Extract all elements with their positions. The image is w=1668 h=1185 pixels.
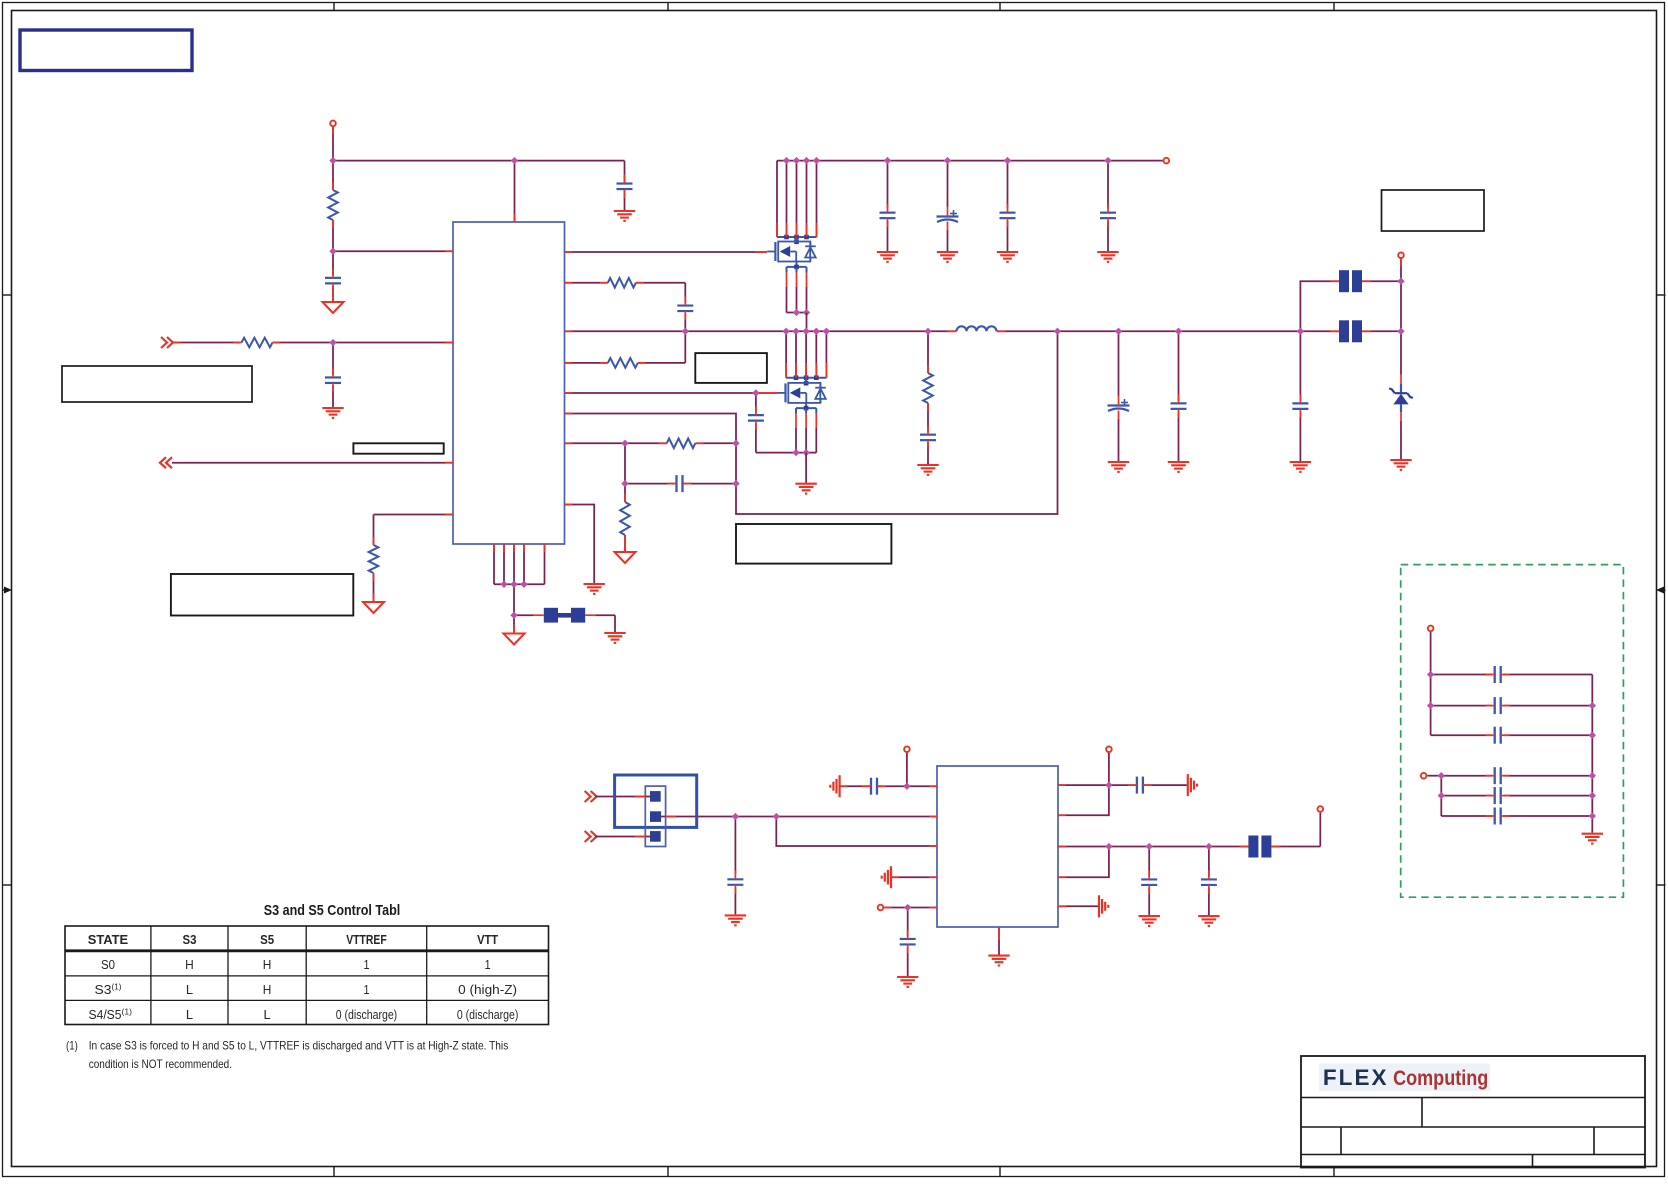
svg-text:STATE: STATE — [88, 932, 129, 947]
svg-text:S4/S5: S4/S5 — [89, 1007, 122, 1022]
svg-text:H: H — [263, 982, 272, 997]
svg-text:In case S3 is forced to H and: In case S3 is forced to H and S5 to L, V… — [89, 1039, 509, 1053]
svg-text:VTTREF: VTTREF — [346, 932, 387, 947]
svg-text:FLEX: FLEX — [1323, 1065, 1389, 1090]
svg-text:1: 1 — [485, 957, 491, 972]
svg-text:1: 1 — [363, 957, 369, 972]
svg-text:VTT: VTT — [477, 932, 498, 947]
svg-text:L: L — [186, 1007, 193, 1022]
svg-text:0 (discharge): 0 (discharge) — [457, 1008, 519, 1022]
svg-text:(1): (1) — [122, 1006, 133, 1016]
svg-text:(1): (1) — [112, 981, 122, 991]
svg-text:L: L — [186, 982, 193, 997]
svg-text:condition is NOT recommended.: condition is NOT recommended. — [89, 1057, 232, 1071]
svg-text:1: 1 — [363, 982, 369, 997]
svg-text:S0: S0 — [101, 957, 115, 972]
svg-text:S3: S3 — [95, 982, 112, 997]
svg-text:(1): (1) — [66, 1039, 78, 1053]
svg-text:S5: S5 — [260, 932, 274, 947]
svg-text:S3: S3 — [182, 932, 196, 947]
svg-text:Computing: Computing — [1393, 1067, 1488, 1090]
svg-text:0 (discharge): 0 (discharge) — [336, 1008, 398, 1022]
svg-text:L: L — [264, 1007, 271, 1022]
svg-text:H: H — [263, 957, 272, 972]
svg-text:H: H — [185, 957, 194, 972]
svg-text:0 (high-Z): 0 (high-Z) — [458, 983, 517, 997]
svg-text:S3 and S5 Control Tabl: S3 and S5 Control Tabl — [264, 902, 401, 919]
